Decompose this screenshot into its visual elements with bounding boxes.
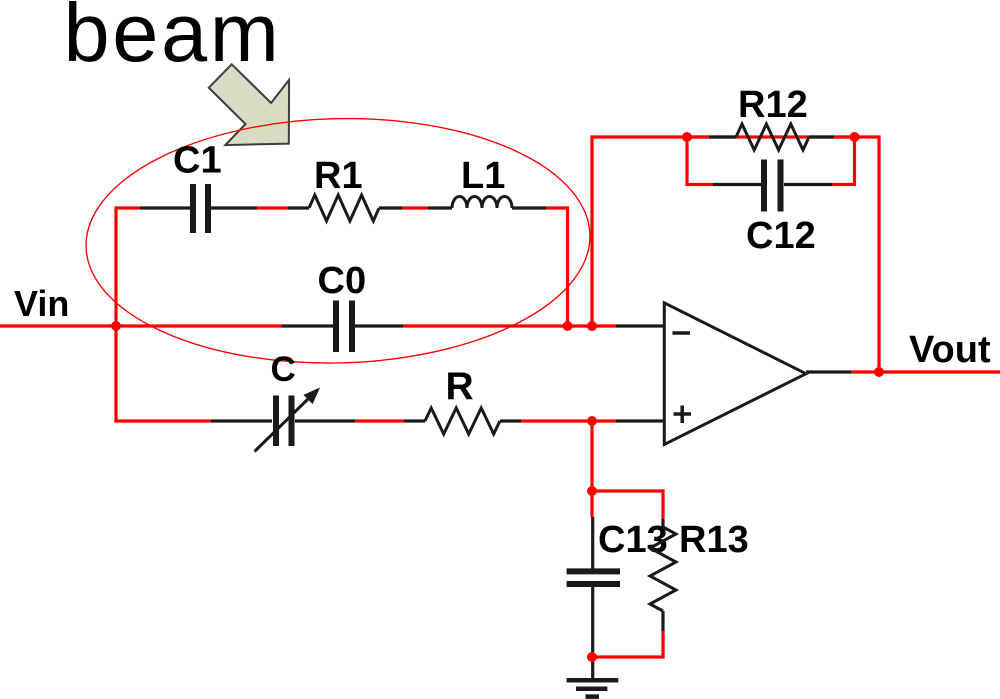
node junction dot feedback left x687: [682, 132, 692, 142]
wire vertical x567.5 top branch to Vin: [566, 206, 569, 326]
svg-text:R13: R13: [679, 519, 749, 561]
arrowhead of variable capacitor C: [303, 388, 320, 405]
svg-text:C0: C0: [318, 260, 367, 302]
wire C13 R13 bottom horizontal y657: [590, 655, 664, 658]
ellipse beam-resonator highlight: [83, 113, 593, 369]
op-amp U1: [616, 303, 851, 445]
resistor R12: [709, 124, 834, 150]
arrow beam-pointer: [209, 64, 289, 145]
svg-text:L1: L1: [461, 155, 505, 197]
wire right vertical x879: [877, 137, 880, 372]
svg-text:Vin: Vin: [14, 283, 69, 324]
svg-text:R: R: [446, 365, 474, 408]
wire vertical x592 lower branch to C13 node: [590, 421, 593, 491]
resistor R1: [288, 195, 402, 221]
wire R12 red stubs: [687, 135, 860, 138]
wire left vertical x116: [114, 206, 117, 422]
svg-text:Vout: Vout: [909, 329, 991, 371]
capacitor C13: [567, 517, 620, 655]
wire top branch red stubs: [116, 206, 569, 209]
capacitor C variable: [211, 396, 355, 452]
wire Vin horizontal red: [0, 324, 616, 327]
node junction dot Vin x592: [587, 321, 597, 331]
svg-text:C: C: [271, 350, 296, 389]
capacitor C0: [282, 301, 403, 353]
svg-text:beam: beam: [64, 0, 282, 79]
wire feedback top horizontal y137: [590, 135, 880, 138]
ground: [567, 657, 619, 697]
node junction dot C13 top: [587, 486, 597, 496]
svg-text:C12: C12: [746, 215, 816, 257]
wire lower branch red: [114, 419, 616, 422]
node junction dot feedback right x854.5: [850, 132, 860, 142]
node junction dot output x879: [874, 367, 884, 377]
wire R13 red stubs: [661, 489, 664, 658]
node junction dot Vin x116: [111, 321, 121, 331]
wire vertical x592 Vin to feedback: [590, 137, 593, 326]
inductor L1: [428, 197, 546, 209]
svg-text:R1: R1: [314, 155, 363, 197]
capacitor C1: [140, 184, 257, 233]
svg-text:R12: R12: [738, 84, 808, 126]
node junction dot lower branch x592: [587, 416, 597, 426]
resistor R13: [650, 519, 676, 631]
node junction dot Vin x567.5: [563, 321, 573, 331]
wire C13 R13 top horizontal y491: [590, 489, 664, 492]
wire C13 top red stub: [590, 491, 593, 517]
node junction dot C13 bottom: [587, 652, 597, 662]
capacitor C12: [713, 160, 832, 212]
wire C12 branch red: [687, 137, 855, 185]
svg-text:C13: C13: [598, 519, 668, 561]
svg-text:C1: C1: [173, 140, 222, 182]
wire Vout output red: [850, 370, 1000, 373]
resistor R: [404, 408, 521, 434]
